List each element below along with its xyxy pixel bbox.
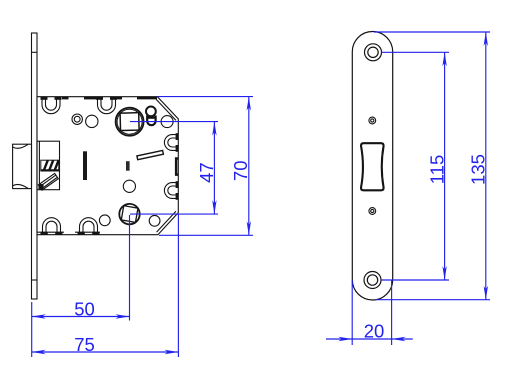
ref line top screw (115) xyxy=(382,51,450,53)
center circle xyxy=(123,180,135,192)
svg-text:75: 75 xyxy=(74,334,95,355)
ext line follower centre xyxy=(129,215,131,321)
arrow 20 left inward xyxy=(338,337,352,341)
arrow 75 right xyxy=(164,350,178,354)
bottom staple D xyxy=(75,218,100,235)
latch head top bevel arc xyxy=(13,144,29,148)
arrow 135 up xyxy=(484,32,488,46)
bottom staple C xyxy=(38,218,65,235)
svg-text:135: 135 xyxy=(468,154,489,185)
svg-text:70: 70 xyxy=(230,161,251,182)
dimension texts xyxy=(74,154,488,355)
ext line faceplate bottom xyxy=(31,302,33,357)
bottom screw hole xyxy=(364,272,381,289)
handle follower U1 xyxy=(116,108,144,136)
latch cutout spool xyxy=(361,143,384,190)
svg-text:115: 115 xyxy=(426,155,447,185)
upper pin hole xyxy=(369,117,376,124)
ext line plate right xyxy=(391,280,393,345)
circle near bottom left xyxy=(99,215,110,226)
arrow 115 down xyxy=(442,266,446,280)
faceplate tangent tick top xyxy=(32,51,38,53)
pivot circle left of follower xyxy=(86,115,98,127)
faceplate side view xyxy=(32,33,38,299)
ref line plate top (135) xyxy=(374,31,490,33)
arrow 70 up xyxy=(247,97,251,111)
arrow 70 down xyxy=(247,221,251,235)
dim ref line bottom of case (70) xyxy=(159,234,253,236)
arrow 135 down xyxy=(484,286,488,300)
circle right of follower xyxy=(161,116,173,128)
tilted lever bar xyxy=(137,150,164,159)
top-right chamfer inner line xyxy=(156,99,176,120)
deadbolt follower U2 xyxy=(119,204,139,224)
latch bolt body box xyxy=(37,141,60,190)
dim line 135 xyxy=(485,32,487,300)
lower pin hole xyxy=(369,208,376,215)
right edge staple F xyxy=(164,181,178,200)
ext line plate left xyxy=(351,280,353,345)
dim ref line top of case (70) xyxy=(158,96,254,98)
svg-text:20: 20 xyxy=(364,321,385,342)
lock case body outline xyxy=(37,97,178,235)
arrow 50 right xyxy=(116,314,130,318)
dim ref line follower centre (47 top) xyxy=(130,121,218,123)
arrow 20 right inward xyxy=(392,337,406,341)
circle near bottom right xyxy=(149,215,160,226)
svg-text:47: 47 xyxy=(196,162,217,183)
faceplate tangent tick bottom xyxy=(32,279,38,281)
latch spring xyxy=(41,160,59,171)
latch box inner line xyxy=(38,141,40,190)
dim line 75 xyxy=(32,351,179,353)
spring anchor staple top B xyxy=(96,97,117,114)
right edge staple E xyxy=(164,133,178,152)
arrow 47 up xyxy=(212,122,216,136)
right edge slot tab xyxy=(176,158,178,174)
dim line 70 xyxy=(248,97,250,236)
dim line 20 xyxy=(326,338,413,340)
ref line plate bottom (135) xyxy=(376,299,490,301)
ext line case back xyxy=(177,214,179,357)
washer double circle xyxy=(72,114,82,124)
arrow 75 left xyxy=(32,350,46,354)
ref line bottom screw (115) xyxy=(381,279,449,281)
guide slot dark xyxy=(83,151,87,180)
stop pin stack xyxy=(146,107,156,126)
arrow 47 down xyxy=(212,200,216,214)
dim line 115 xyxy=(444,52,446,280)
dim line 47 xyxy=(213,122,215,215)
latch bolt head xyxy=(13,144,32,188)
latch head bottom bevel arc xyxy=(13,184,29,188)
top screw hole xyxy=(365,44,382,61)
latch tail hatched bar xyxy=(38,173,58,190)
arrow 115 up xyxy=(442,52,446,66)
faceplate front outline xyxy=(352,31,392,300)
arrow 50 left xyxy=(32,314,46,318)
top edge tab bars xyxy=(62,97,157,99)
spring anchor staple top A xyxy=(41,97,62,114)
dim line 50 xyxy=(32,316,130,318)
dim ref line deadbolt centre (47 bottom) xyxy=(130,213,218,215)
svg-text:50: 50 xyxy=(74,298,95,319)
bottom-right chamfer inner line xyxy=(157,211,176,232)
arrowheads xyxy=(32,32,488,354)
small dark rect xyxy=(126,161,130,171)
